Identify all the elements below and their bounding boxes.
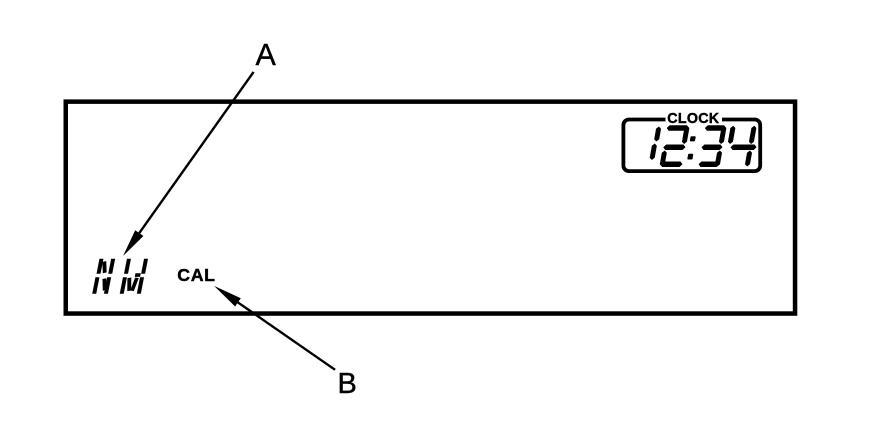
clock legend background bbox=[666, 109, 723, 124]
svg-text:A: A bbox=[256, 38, 277, 72]
clock bezel bbox=[623, 120, 760, 172]
callout arrow A (points to NW display) bbox=[138, 72, 254, 235]
clock digits 12:34 bbox=[648, 125, 760, 167]
clock digit 2 bbox=[666, 125, 689, 131]
svg-text:CLOCK: CLOCK bbox=[667, 111, 720, 127]
clock digit 1 bbox=[654, 127, 662, 142]
clock digit 3 bbox=[704, 125, 726, 131]
svg-text:CAL: CAL bbox=[177, 265, 215, 285]
svg-text:B: B bbox=[338, 368, 357, 400]
compass letter N (segmented) bbox=[97, 259, 104, 274]
compass letter W (segmented) bbox=[124, 259, 131, 274]
display panel outline bbox=[66, 102, 795, 314]
clock digit 4 bbox=[730, 145, 757, 151]
compass reading NW bbox=[92, 259, 148, 294]
clock colon bbox=[690, 136, 696, 141]
callout arrow B (points to CAL) bbox=[236, 301, 335, 370]
